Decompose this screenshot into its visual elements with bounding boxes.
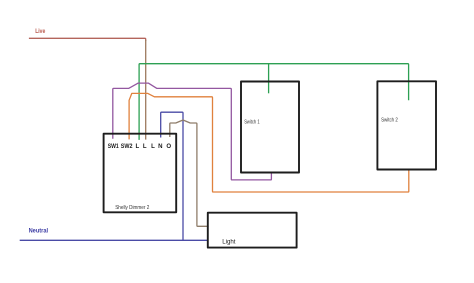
component SW2 Switch 2 box (377, 81, 436, 169)
svg-text:SW1: SW1 (108, 143, 120, 150)
svg-text:Shelly Dimmer 2: Shelly Dimmer 2 (115, 205, 149, 211)
wire live feed (red-brown): from Live label right then down to Shelly L terminal (29, 38, 146, 41)
wire orange SW2: from Shelly SW2 up, hop, right, down, right, up into Switch 2 bottom (129, 93, 409, 192)
svg-text:Live: Live (35, 28, 45, 35)
component LP1 Light box (208, 213, 297, 248)
wire purple SW1: from Shelly SW1 up, hop over verticals, right, down and into Switch 1 bottom (113, 83, 272, 180)
svg-text:SW2: SW2 (121, 143, 133, 150)
svg-text:L: L (136, 143, 140, 150)
component U1 Shelly Dimmer 2 box (104, 134, 177, 213)
svg-text:N: N (158, 143, 162, 150)
svg-text:L: L (151, 143, 155, 150)
wire brown O output: from Shelly O up, hop over blue, right, down to Light box (170, 120, 209, 226)
svg-text:Switch 2: Switch 2 (381, 117, 398, 123)
svg-text:Neutral: Neutral (29, 227, 49, 234)
component SW1 Switch 1 box (241, 82, 299, 173)
svg-text:Switch 1: Switch 1 (244, 119, 260, 125)
wire blue N: from Shelly N up, right over box edge, down to neutral bus (161, 112, 183, 240)
wire green switched-live: from Shelly L up, across to Switch 2, with drop into Switch 1 (139, 64, 409, 140)
wire green drop into Switch 1 (268, 64, 270, 94)
wire neutral bus (blue): horizontal to Light box (20, 239, 208, 241)
svg-text:L: L (143, 143, 147, 150)
svg-text:O: O (166, 143, 171, 150)
svg-text:Light: Light (222, 238, 235, 245)
wire live drop (brown core) down to Shelly L terminal (145, 40, 147, 140)
